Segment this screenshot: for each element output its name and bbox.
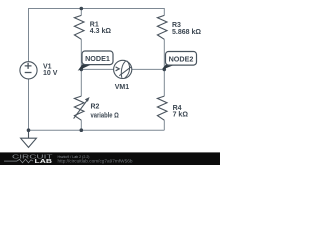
potentiometer R2: [74, 96, 90, 120]
label R4 7 kOhm: [173, 105, 189, 118]
resistor R1: [74, 15, 84, 39]
wire voltmeter row right: [132, 68, 165, 70]
wire right vertical between R3 and R4: [163, 39, 165, 96]
svg-text:5.868 kΩ: 5.868 kΩ: [172, 29, 201, 36]
svg-text:variable Ω: variable Ω: [91, 112, 120, 119]
label R3 5.868 kOhm: [172, 22, 201, 36]
footer title text: [58, 154, 91, 159]
junction dot bottom ground tee: [27, 128, 31, 132]
footer bar: [0, 152, 220, 165]
ground: [21, 130, 37, 147]
svg-text:NODE1: NODE1: [85, 54, 110, 63]
label VM1: [115, 84, 130, 91]
svg-text:VM1: VM1: [115, 84, 130, 91]
label R2 variable Ohm: [91, 103, 120, 119]
wire middle vertical stub above R1: [80, 9, 82, 16]
svg-text:10 V: 10 V: [43, 70, 58, 77]
resistor R3: [157, 15, 167, 39]
wire left vertical lower: [28, 79, 30, 130]
svg-text:http://circuitlab.com/cg7a97mf: http://circuitlab.com/cg7a97mfW56b: [58, 159, 134, 164]
junction dot top at R1 branch: [80, 7, 84, 11]
svg-text:7 kΩ: 7 kΩ: [173, 112, 189, 119]
label V1 10 V: [43, 64, 58, 77]
wire right vertical stub above R3: [163, 8, 165, 15]
svg-text:4.3 kΩ: 4.3 kΩ: [90, 28, 112, 35]
node NODE1 flag: [79, 51, 113, 70]
node NODE2 flag: [163, 52, 197, 69]
resistor R4: [157, 96, 167, 120]
label R1 4.3 kOhm: [90, 22, 112, 36]
voltage source V1: [20, 62, 37, 79]
svg-text:LAB: LAB: [35, 159, 53, 165]
wire middle vertical below R2: [80, 120, 82, 130]
svg-text:NODE2: NODE2: [169, 55, 194, 64]
wire left vertical upper: [28, 8, 30, 62]
wire middle vertical between R1 and R2: [80, 39, 82, 96]
footer url text: [58, 159, 134, 164]
wire right vertical below R4: [163, 120, 165, 130]
junction dot left node1 row: [80, 68, 84, 72]
wire bottom horizontal: [29, 129, 165, 131]
svg-text:R2: R2: [91, 103, 100, 110]
wire top horizontal: [29, 8, 165, 10]
junction dot right node2 row: [163, 68, 167, 72]
junction dot bottom R2 tee: [80, 128, 84, 132]
CircuitLab logo: [4, 154, 53, 165]
voltmeter VM1: [114, 60, 132, 78]
wire voltmeter row left: [81, 68, 113, 70]
